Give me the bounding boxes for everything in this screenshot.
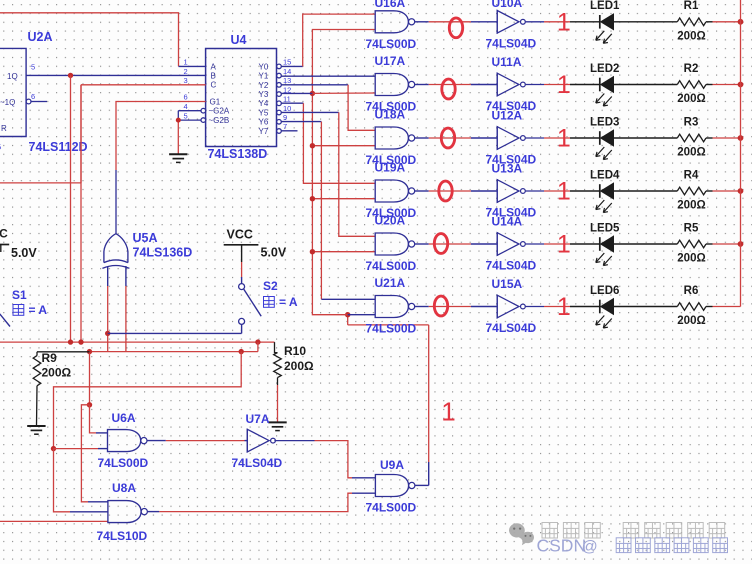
svg-text:9: 9: [283, 113, 287, 122]
svg-text:5: 5: [0, 143, 1, 152]
svg-text:74LS112D: 74LS112D: [29, 140, 88, 154]
resistor R2 200ohm: [677, 81, 706, 89]
wire rail down x89.5 to junction A: [89, 352, 91, 405]
svg-text::: :: [607, 523, 611, 540]
svg-text:Y0: Y0: [259, 62, 269, 71]
svg-text:U18A: U18A: [375, 108, 406, 122]
wire R10 top corner: [275, 342, 278, 353]
svg-text:5: 5: [31, 63, 35, 72]
wire S1 net horizontal to R10: [0, 341, 275, 343]
wire net Y3 to U17A input 2: [281, 92, 375, 94]
svg-text:R3: R3: [684, 116, 699, 128]
NAND gate U19A 74LS00D row 4: [375, 180, 408, 202]
wire VCC to S2 top contact: [241, 262, 243, 284]
svg-text:U13A: U13A: [492, 162, 523, 176]
svg-text:CSDN: CSDN: [537, 536, 587, 556]
svg-text:74LS04D: 74LS04D: [486, 259, 537, 273]
resistor R4 200ohm: [677, 187, 706, 195]
wire LED4 to R4: [614, 190, 678, 192]
wire junction A branch to U8A input 1: [81, 405, 108, 502]
svg-text:Y3: Y3: [259, 90, 269, 99]
svg-text:13: 13: [283, 76, 291, 85]
svg-text:74LS04D: 74LS04D: [486, 321, 537, 335]
svg-text:Y1: Y1: [259, 72, 269, 81]
wire U21A output to U15A: [415, 306, 497, 308]
junction S1 net x257.9: [255, 339, 260, 344]
svg-text:74LS138D: 74LS138D: [208, 147, 268, 161]
wire LED3 to R3: [614, 137, 678, 139]
junction A x89.5: [87, 402, 92, 407]
resistor R9 200ohm: [33, 356, 41, 386]
inverter U11A 74LS04D row 2: [497, 73, 519, 96]
svg-text:@: @: [582, 539, 598, 556]
svg-text:R2: R2: [684, 63, 699, 75]
junction ~G2B: [176, 118, 181, 123]
svg-text:10: 10: [283, 104, 291, 113]
NAND gate U8A 74LS10D 3-input: [108, 501, 147, 523]
wire R9 to ground: [36, 386, 39, 425]
svg-text:LED6: LED6: [590, 285, 619, 297]
wire LED1 to R1: [614, 21, 678, 23]
wire net C vertical continues down to S1 net: [80, 85, 82, 342]
wire R6 to VCC rail: [706, 306, 741, 308]
svg-text:LED5: LED5: [590, 222, 620, 234]
svg-text:U15A: U15A: [492, 277, 523, 291]
junction VCC rail row 5: [738, 241, 744, 247]
NAND gate U6A 74LS00D: [108, 430, 141, 452]
svg-text:1: 1: [557, 8, 571, 36]
svg-text:LED3: LED3: [590, 116, 619, 128]
svg-text:200Ω: 200Ω: [677, 200, 705, 212]
svg-text:B: B: [211, 72, 216, 81]
svg-text:200Ω: 200Ω: [677, 147, 705, 159]
wire net ~G2A ~G2B to ground: [178, 111, 201, 154]
svg-text:6: 6: [184, 93, 188, 102]
LED5: [599, 237, 601, 251]
wire U10A output to LED1: [526, 21, 600, 23]
probe digit 0 row 4: [439, 181, 452, 201]
svg-text:U4: U4: [231, 33, 247, 47]
svg-text:U8A: U8A: [112, 481, 136, 495]
S1 key label: [13, 303, 47, 317]
resistor R1 200ohm: [677, 18, 706, 26]
svg-text:14: 14: [283, 67, 291, 76]
svg-text:~G2B: ~G2B: [209, 116, 230, 125]
wire U17A output to U11A: [415, 84, 497, 86]
U4 right pin numbers 15 14 13 12 11 10 9 7: [283, 58, 291, 132]
S2 key label: [264, 295, 298, 309]
junction S1 net x81: [78, 339, 83, 344]
svg-text:U11A: U11A: [492, 55, 522, 69]
inverter U13A 74LS04D row 4: [497, 180, 519, 203]
wire U11A output to LED2: [526, 84, 600, 86]
svg-text:LED1: LED1: [590, 0, 620, 12]
probe digit 0 row 3: [441, 128, 454, 148]
junction B x53.5: [51, 446, 56, 451]
svg-text:S1: S1: [12, 288, 27, 302]
resistor R10 200ohm: [274, 353, 282, 378]
svg-text:~G2A: ~G2A: [209, 107, 230, 116]
NAND gate U9A 74LS00D: [375, 475, 408, 497]
junction S1 net x70.5: [68, 339, 73, 344]
svg-text:U21A: U21A: [375, 276, 406, 290]
svg-text:74LS04D: 74LS04D: [232, 456, 283, 470]
wire U20A output to U14A: [415, 243, 497, 245]
svg-text:A: A: [211, 62, 217, 71]
svg-text:VCC: VCC: [0, 227, 8, 241]
svg-text:Y5: Y5: [259, 108, 269, 117]
svg-text:74LS00D: 74LS00D: [366, 37, 417, 51]
wire U9A output feedback loop up to U21A input junction: [348, 315, 429, 486]
svg-text:11: 11: [283, 95, 291, 104]
svg-text:R5: R5: [684, 222, 699, 234]
wire junction B down to U8A input 2: [54, 449, 108, 512]
probe digit 0 row 1: [449, 18, 462, 38]
svg-text:Y2: Y2: [259, 81, 269, 90]
svg-text:3: 3: [184, 76, 188, 85]
NAND gate U20A 74LS00D row 5: [375, 233, 408, 255]
junction VCC rail row 1: [738, 19, 744, 25]
wire R9 top lead to rail: [37, 352, 90, 356]
wire junction B to U6A input 2: [54, 448, 108, 450]
NAND gate U17A 74LS00D row 2: [375, 74, 408, 96]
svg-text:U14A: U14A: [492, 215, 523, 229]
LED2: [599, 78, 601, 92]
wire net C : from left edge via x=81 to U4.C: [0, 85, 206, 183]
wire feedback net vertical x312.4 with taps: [312, 30, 375, 315]
probe digit 0 row 2: [442, 79, 455, 99]
wire U14A output to LED5: [526, 243, 600, 245]
wire U19A output to U13A: [415, 190, 497, 192]
wire net Y6 to U21A input 1: [281, 122, 375, 300]
svg-text:U7A: U7A: [246, 412, 270, 426]
U4 enable bubbles ~G2A ~G2B: [201, 108, 206, 122]
svg-text:Y4: Y4: [259, 99, 269, 108]
junction U21A input 2: [345, 312, 350, 317]
svg-text:6: 6: [31, 92, 35, 101]
svg-text:74LS00D: 74LS00D: [98, 456, 149, 470]
svg-text:U9A: U9A: [380, 458, 404, 472]
wire U16A output to U10A: [415, 21, 497, 23]
svg-text:LED2: LED2: [590, 63, 619, 75]
svg-text:R4: R4: [684, 169, 699, 181]
svg-text:74LS00D: 74LS00D: [366, 259, 417, 273]
probe digit 0 row 6: [434, 296, 447, 316]
ground under R9: [27, 425, 45, 427]
inverter U15A 74LS04D row 6: [497, 295, 519, 318]
probe digit 0 row 5: [434, 234, 447, 254]
svg-text:5.0V: 5.0V: [261, 246, 287, 260]
svg-text:VCC: VCC: [227, 228, 253, 242]
svg-text:= A: = A: [29, 303, 48, 317]
svg-text:1: 1: [441, 397, 455, 427]
wire 1Q vertical down to S1 net: [70, 75, 72, 342]
svg-text:R1: R1: [684, 0, 699, 12]
svg-text:1: 1: [557, 293, 571, 321]
ground under R10: [268, 421, 286, 423]
ground under U4: [169, 153, 187, 155]
junction feedback U20A.in2: [310, 249, 315, 254]
LED1: [599, 15, 601, 29]
svg-text:5.0V: 5.0V: [11, 246, 37, 260]
wire net Y5 to U20A input 1: [281, 112, 375, 236]
junction XOR input1 / S2 return: [105, 331, 110, 336]
U2A ~1Q output bubble and stub: [26, 99, 47, 104]
svg-text:4: 4: [184, 102, 188, 111]
svg-text:1: 1: [557, 231, 571, 259]
svg-text:U19A: U19A: [375, 161, 406, 175]
junction lower rail x241.2: [239, 349, 244, 354]
decoder U4 74LS138D: [206, 49, 277, 147]
power VCC for S2: [224, 228, 259, 263]
wire R3 to VCC rail: [706, 137, 741, 139]
svg-text:74LS10D: 74LS10D: [97, 529, 148, 543]
wire net A : from left edge to U4.A: [0, 13, 206, 67]
svg-text:74LS00D: 74LS00D: [366, 322, 417, 336]
svg-text:1: 1: [557, 71, 571, 99]
svg-text:Y6: Y6: [259, 118, 269, 127]
wire U7A output to U9A input 1: [274, 441, 375, 478]
U4 left pin numbers 1 2 3 6 4 5: [184, 58, 188, 121]
svg-text:R: R: [1, 124, 7, 133]
U4 output bubbles Y0-Y7: [277, 64, 282, 133]
wire LED6 to R6: [614, 306, 678, 308]
wire R1 to VCC rail: [706, 21, 741, 23]
wire branch down from S1 net to lower rail: [257, 342, 259, 352]
svg-text:C: C: [211, 81, 217, 90]
svg-text:= A: = A: [279, 295, 298, 309]
svg-text:U6A: U6A: [112, 411, 136, 425]
svg-text:R10: R10: [284, 344, 306, 358]
resistor R3 200ohm: [677, 134, 706, 142]
junction VCC rail row 3: [738, 135, 744, 141]
wire net Y2 to U18A input 1: [281, 85, 375, 131]
svg-text:200Ω: 200Ω: [677, 253, 705, 265]
LED4: [599, 184, 601, 198]
svg-text:200Ω: 200Ω: [677, 93, 705, 105]
resistor R5 200ohm: [677, 240, 706, 248]
wire net 1Q to U4.B: [26, 74, 206, 76]
inverter U10A 74LS04D row 1: [497, 11, 519, 34]
junction 1Q: [68, 73, 73, 78]
wire loop down-left to U6A/U8A junction: [54, 352, 242, 449]
svg-text:5: 5: [184, 111, 188, 120]
wire R2 to VCC rail: [706, 84, 741, 86]
LED6: [599, 300, 601, 314]
svg-text:U5A: U5A: [133, 231, 158, 245]
svg-text:200Ω: 200Ω: [677, 315, 705, 327]
junction VCC rail row 2: [738, 82, 744, 88]
wire R4 to VCC rail: [706, 190, 741, 192]
svg-text:U10A: U10A: [492, 0, 523, 10]
wire U8A input 3 from left edge: [0, 520, 108, 522]
svg-text:U17A: U17A: [375, 54, 406, 68]
junction feedback U18A.in2: [310, 143, 315, 148]
svg-text:G1: G1: [210, 97, 221, 106]
wire R10 to ground: [277, 378, 279, 422]
junction feedback U19A.in2: [310, 196, 315, 201]
wire U13A output to LED4: [526, 190, 600, 192]
inverter U12A 74LS04D row 3: [497, 127, 519, 150]
wire net Y1 to U17A input 1: [281, 75, 375, 77]
svg-text:200Ω: 200Ω: [677, 30, 705, 42]
XOR gate U5A 74LS136D pointing up: [102, 234, 129, 269]
svg-text:~1Q: ~1Q: [0, 98, 15, 107]
wire net G1 : XOR output up to U4.G1: [116, 102, 206, 234]
svg-text:1: 1: [557, 125, 571, 153]
svg-text:1: 1: [557, 178, 571, 206]
svg-text:200Ω: 200Ω: [284, 359, 314, 373]
wire XOR input 2 down: [125, 266, 127, 352]
inverter U7A 74LS04D: [247, 429, 269, 452]
wire R5 to VCC rail: [706, 243, 741, 245]
watermark text CSDN at maomaoaichixiaoyu: [537, 536, 728, 556]
resistor R6 200ohm: [677, 303, 706, 311]
svg-text:U2A: U2A: [28, 30, 53, 44]
svg-text:S2: S2: [263, 279, 278, 293]
svg-text:15: 15: [283, 58, 291, 67]
svg-text:R6: R6: [684, 285, 699, 297]
wire lower rail y351.6: [90, 351, 258, 353]
LED3: [599, 131, 601, 145]
NAND gate U16A 74LS00D row 1: [375, 11, 408, 33]
wire junction A to U6A input 1: [90, 405, 108, 433]
svg-text:74LS136D: 74LS136D: [133, 246, 193, 260]
svg-text:200Ω: 200Ω: [42, 366, 72, 380]
wire LED5 to R5: [614, 243, 678, 245]
VCC rail vertical at right: [740, 0, 742, 307]
svg-text:7: 7: [283, 122, 287, 131]
svg-text:Y7: Y7: [259, 127, 269, 136]
junction feedback-Y3: [310, 91, 315, 96]
flip-flop U2A 74LS112D (cropped at left edge): [0, 48, 26, 136]
svg-text:LED4: LED4: [590, 169, 620, 181]
svg-text:74LS04D: 74LS04D: [486, 37, 537, 51]
inverter U14A 74LS04D row 5: [497, 233, 519, 256]
wire U15A output to LED6: [526, 306, 600, 308]
wire net Y4 to U19A input 1: [281, 103, 375, 183]
wire XOR input 1 down to junction: [107, 266, 109, 352]
NAND gate U21A 74LS00D row 6: [375, 296, 408, 318]
NAND gate U18A 74LS00D row 3: [375, 127, 408, 149]
wire net Y0 to U16A input 1: [281, 14, 375, 66]
svg-text:2: 2: [184, 67, 188, 76]
wire U12A output to LED3: [526, 137, 600, 139]
svg-text:R9: R9: [42, 351, 58, 365]
power VCC 5.0V at left edge (cropped): [0, 227, 9, 253]
switch S1 (cropped at left edge): [0, 311, 10, 327]
svg-text:74LS00D: 74LS00D: [366, 501, 417, 515]
junction lower rail x89.5: [87, 349, 92, 354]
wire U6A output to U7A: [147, 440, 247, 442]
wire U8A output to U9A input 2: [148, 493, 376, 511]
wire net Y7 stub: [281, 130, 297, 132]
svg-text:1: 1: [184, 58, 188, 67]
svg-text:U16A: U16A: [375, 0, 406, 10]
watermark WeChat logo: [509, 523, 534, 545]
watermark text gongzhonghao dianlu yidiantong: [542, 523, 725, 541]
wire U18A output to U12A: [415, 137, 497, 139]
svg-text:1Q: 1Q: [7, 72, 18, 81]
switch S2: [239, 284, 262, 325]
wire S2 bottom to XOR input 1: [108, 324, 242, 333]
junction VCC rail row 4: [738, 188, 744, 194]
svg-text:U20A: U20A: [375, 214, 406, 228]
wire LED2 to R2: [614, 84, 678, 86]
svg-text:U12A: U12A: [492, 109, 523, 123]
